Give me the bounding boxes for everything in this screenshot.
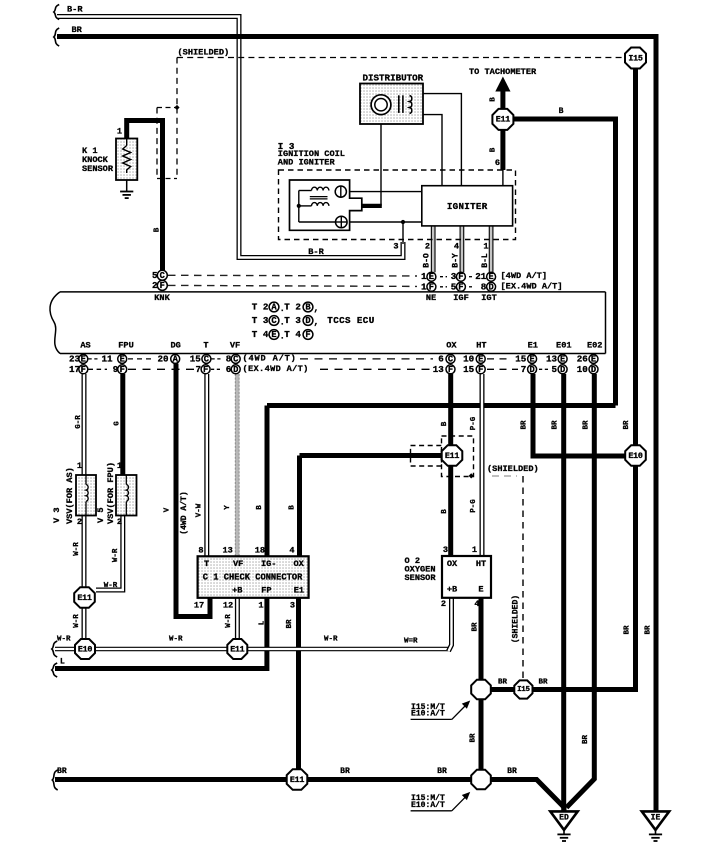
svg-text:E10: E10 bbox=[78, 644, 92, 654]
svg-text:T: T bbox=[204, 559, 209, 569]
svg-text:BR: BR bbox=[552, 420, 560, 429]
svg-text:F: F bbox=[203, 365, 208, 375]
svg-text:11: 11 bbox=[101, 353, 113, 364]
svg-text:4: 4 bbox=[289, 545, 294, 555]
svg-text:D: D bbox=[488, 282, 493, 292]
svg-text:C: C bbox=[271, 316, 276, 326]
svg-text:B-R: B-R bbox=[67, 5, 83, 15]
svg-text:W-R: W-R bbox=[73, 614, 81, 628]
svg-text:8: 8 bbox=[198, 545, 203, 555]
svg-text:1: 1 bbox=[421, 281, 427, 292]
svg-text:1: 1 bbox=[77, 461, 82, 471]
svg-text:C: C bbox=[160, 271, 165, 281]
svg-text:B: B bbox=[289, 505, 297, 510]
svg-text:18: 18 bbox=[255, 545, 265, 555]
svg-text:F: F bbox=[458, 272, 463, 282]
svg-text:IGT: IGT bbox=[481, 293, 497, 303]
svg-text:VSV(FOR FPU): VSV(FOR FPU) bbox=[106, 462, 116, 524]
svg-text:,: , bbox=[314, 317, 320, 328]
svg-text:+B: +B bbox=[232, 586, 242, 596]
svg-text:1: 1 bbox=[258, 601, 263, 611]
svg-text:T: T bbox=[203, 341, 208, 351]
svg-text:OX: OX bbox=[447, 559, 458, 569]
svg-text:F: F bbox=[160, 281, 165, 291]
svg-text:6: 6 bbox=[438, 353, 444, 364]
svg-text:(4WD A/T): (4WD A/T) bbox=[180, 491, 189, 534]
svg-text:E: E bbox=[81, 354, 86, 364]
svg-text:W-R: W-R bbox=[104, 582, 118, 590]
svg-text:12: 12 bbox=[223, 601, 233, 611]
svg-text:F: F bbox=[429, 282, 434, 292]
svg-text:E1: E1 bbox=[294, 586, 304, 596]
svg-text:T 3: T 3 bbox=[284, 315, 301, 326]
svg-text:4: 4 bbox=[454, 242, 459, 252]
svg-text:DISTRIBUTOR: DISTRIBUTOR bbox=[363, 73, 424, 84]
svg-text:+B: +B bbox=[447, 585, 457, 595]
svg-text:E11: E11 bbox=[445, 451, 459, 461]
svg-text:T 4: T 4 bbox=[252, 329, 269, 340]
svg-text:13: 13 bbox=[546, 353, 558, 364]
svg-text:SENSOR: SENSOR bbox=[82, 164, 114, 174]
svg-text:13: 13 bbox=[433, 364, 445, 375]
svg-text:[EX.4WD A/T]: [EX.4WD A/T] bbox=[501, 282, 563, 292]
svg-text:7: 7 bbox=[521, 364, 527, 375]
svg-text:13: 13 bbox=[223, 545, 233, 555]
svg-text:IG-: IG- bbox=[261, 559, 277, 569]
svg-text:E: E bbox=[429, 272, 434, 282]
svg-text:E: E bbox=[488, 272, 493, 282]
svg-text:IGNITER: IGNITER bbox=[447, 201, 488, 212]
svg-text:G: G bbox=[114, 421, 122, 426]
svg-text:10: 10 bbox=[463, 353, 474, 364]
svg-text:C: C bbox=[448, 354, 453, 364]
svg-text:E02: E02 bbox=[587, 341, 603, 351]
svg-text:3: 3 bbox=[290, 601, 295, 611]
svg-text:(SHIELDED): (SHIELDED) bbox=[178, 48, 230, 58]
svg-text:E1: E1 bbox=[528, 341, 538, 351]
svg-text:TO TACHOMETER: TO TACHOMETER bbox=[469, 67, 537, 77]
svg-text:F: F bbox=[120, 365, 125, 375]
svg-text:D: D bbox=[305, 316, 310, 326]
svg-text:BR: BR bbox=[521, 420, 529, 429]
svg-text:B: B bbox=[154, 227, 162, 232]
svg-text:E: E bbox=[591, 354, 596, 364]
svg-text:V 5: V 5 bbox=[96, 508, 106, 524]
svg-text:2: 2 bbox=[117, 517, 122, 527]
svg-text:A: A bbox=[271, 303, 277, 313]
svg-text:F: F bbox=[478, 365, 483, 375]
svg-text:E: E bbox=[560, 354, 565, 364]
svg-text:2: 2 bbox=[425, 242, 430, 252]
svg-text:D: D bbox=[233, 365, 238, 375]
svg-text:E: E bbox=[478, 354, 483, 364]
svg-text:P-G: P-G bbox=[470, 499, 478, 513]
svg-text:(EX.4WD A/T): (EX.4WD A/T) bbox=[243, 364, 309, 374]
svg-text:E10:A/T: E10:A/T bbox=[411, 710, 445, 719]
svg-text:KNK: KNK bbox=[154, 293, 170, 303]
svg-text:B: B bbox=[305, 303, 311, 313]
svg-text:E: E bbox=[120, 354, 125, 364]
svg-text:1: 1 bbox=[472, 545, 477, 555]
svg-text:T 2: T 2 bbox=[252, 302, 269, 313]
svg-text:P-G: P-G bbox=[470, 416, 478, 430]
svg-text:BR: BR bbox=[470, 733, 478, 742]
svg-text:VSV(FOR AS): VSV(FOR AS) bbox=[65, 467, 75, 524]
svg-text:BR: BR bbox=[57, 767, 67, 776]
svg-text:[4WD A/T]: [4WD A/T] bbox=[501, 271, 548, 281]
svg-text:B: B bbox=[441, 421, 449, 426]
svg-text:Y: Y bbox=[224, 505, 232, 510]
svg-text:15: 15 bbox=[515, 353, 527, 364]
svg-text:W-R: W-R bbox=[57, 636, 71, 644]
svg-text:ED: ED bbox=[559, 813, 569, 822]
svg-text:B: B bbox=[441, 509, 449, 514]
svg-text:T 2: T 2 bbox=[284, 302, 301, 313]
svg-text:VF: VF bbox=[233, 559, 243, 569]
svg-text:BR: BR bbox=[623, 420, 631, 429]
svg-text:V 3: V 3 bbox=[52, 508, 62, 524]
svg-text:BR: BR bbox=[624, 625, 632, 634]
svg-text:AS: AS bbox=[80, 341, 90, 351]
svg-text:HT: HT bbox=[476, 341, 486, 351]
svg-text:AND IGNITER: AND IGNITER bbox=[278, 158, 336, 168]
svg-text:15: 15 bbox=[190, 353, 202, 364]
svg-text:E10: E10 bbox=[628, 451, 642, 461]
svg-text:W-R: W-R bbox=[225, 614, 233, 628]
svg-text:HT: HT bbox=[476, 559, 486, 569]
svg-text:E10:A/T: E10:A/T bbox=[411, 801, 445, 810]
svg-text:L: L bbox=[60, 658, 65, 667]
svg-text:I15: I15 bbox=[517, 686, 530, 694]
svg-text:F: F bbox=[305, 330, 310, 340]
svg-text:E: E bbox=[478, 585, 483, 595]
svg-text:B-O: B-O bbox=[423, 253, 432, 268]
svg-text:D: D bbox=[591, 365, 596, 375]
svg-text:B: B bbox=[490, 147, 498, 152]
svg-text:E11: E11 bbox=[290, 775, 304, 785]
svg-text:E11: E11 bbox=[496, 115, 510, 125]
svg-text:F: F bbox=[81, 365, 86, 375]
svg-text:C 1 CHECK CONNECTOR: C 1 CHECK CONNECTOR bbox=[203, 573, 303, 583]
svg-text:6: 6 bbox=[495, 158, 500, 168]
svg-text:TCCS ECU: TCCS ECU bbox=[327, 315, 374, 326]
svg-text:V-W: V-W bbox=[196, 503, 204, 517]
svg-text:B: B bbox=[559, 107, 564, 116]
svg-text:FP: FP bbox=[261, 586, 271, 596]
svg-text:B: B bbox=[256, 505, 264, 510]
svg-text:26: 26 bbox=[577, 353, 588, 364]
svg-text:15: 15 bbox=[463, 364, 475, 375]
svg-text:10: 10 bbox=[577, 364, 588, 375]
svg-text:3: 3 bbox=[393, 242, 398, 252]
svg-text:BR: BR bbox=[582, 735, 590, 744]
svg-text:BR: BR bbox=[645, 625, 653, 634]
svg-text:BR: BR bbox=[472, 622, 480, 631]
svg-text:C: C bbox=[204, 354, 209, 364]
svg-text:W-R: W-R bbox=[73, 542, 81, 556]
svg-text:E01: E01 bbox=[556, 341, 572, 351]
svg-text:1: 1 bbox=[483, 242, 488, 252]
svg-text:F: F bbox=[448, 365, 453, 375]
svg-text:DG: DG bbox=[171, 341, 181, 351]
svg-text:OX: OX bbox=[446, 341, 457, 351]
svg-text:OX: OX bbox=[294, 559, 305, 569]
svg-text:(4WD A/T): (4WD A/T) bbox=[243, 354, 297, 364]
svg-text:D: D bbox=[560, 365, 565, 375]
svg-text:W-R: W-R bbox=[169, 636, 183, 644]
svg-text:BR: BR bbox=[437, 767, 447, 776]
svg-text:BR: BR bbox=[507, 767, 517, 776]
svg-text:,: , bbox=[314, 303, 320, 314]
svg-text:BR: BR bbox=[286, 619, 294, 628]
svg-text:1: 1 bbox=[117, 461, 122, 471]
svg-text:IGF: IGF bbox=[453, 293, 469, 303]
svg-text:IE: IE bbox=[651, 813, 661, 822]
svg-text:VF: VF bbox=[230, 341, 240, 351]
svg-text:I15: I15 bbox=[628, 53, 642, 63]
svg-text:E: E bbox=[271, 330, 276, 340]
svg-text:4: 4 bbox=[474, 599, 479, 609]
svg-text:B-R: B-R bbox=[308, 247, 324, 257]
svg-text:T 3: T 3 bbox=[252, 315, 269, 326]
svg-text:7: 7 bbox=[195, 364, 201, 375]
svg-text:20: 20 bbox=[157, 353, 168, 364]
svg-text:5: 5 bbox=[551, 364, 557, 375]
svg-text:B: B bbox=[490, 97, 498, 102]
svg-text:F: F bbox=[458, 282, 463, 292]
svg-text:(SHIELDED): (SHIELDED) bbox=[512, 595, 521, 643]
svg-text:G-R: G-R bbox=[75, 415, 83, 429]
svg-text:B-L: B-L bbox=[481, 253, 490, 268]
svg-text:2: 2 bbox=[77, 517, 82, 527]
svg-text:L: L bbox=[259, 620, 267, 625]
svg-text:NE: NE bbox=[426, 293, 436, 303]
svg-text:E11: E11 bbox=[77, 593, 91, 603]
svg-text:E: E bbox=[529, 354, 534, 364]
svg-text:3: 3 bbox=[443, 545, 448, 555]
svg-text:W-R: W-R bbox=[112, 548, 120, 562]
svg-text:BR: BR bbox=[498, 678, 507, 686]
svg-text:E11: E11 bbox=[230, 644, 244, 654]
svg-text:17: 17 bbox=[194, 601, 204, 611]
svg-text:BR: BR bbox=[340, 767, 350, 776]
svg-text:BR: BR bbox=[583, 420, 591, 429]
svg-text:FPU: FPU bbox=[118, 341, 134, 351]
svg-text:SENSOR: SENSOR bbox=[405, 573, 437, 583]
svg-text:V: V bbox=[164, 507, 172, 512]
svg-text:W=R: W=R bbox=[404, 638, 418, 646]
svg-text:2: 2 bbox=[441, 599, 446, 609]
svg-text:C: C bbox=[233, 354, 238, 364]
svg-text:BR: BR bbox=[539, 678, 548, 686]
svg-text:A: A bbox=[173, 354, 179, 364]
svg-text:(SHIELDED): (SHIELDED) bbox=[487, 464, 539, 474]
svg-text:T 4: T 4 bbox=[284, 329, 301, 340]
svg-text:B-Y: B-Y bbox=[452, 253, 461, 268]
svg-text:W-R: W-R bbox=[324, 636, 338, 644]
svg-text:1: 1 bbox=[117, 127, 122, 137]
svg-text:D: D bbox=[529, 365, 534, 375]
svg-text:BR: BR bbox=[72, 25, 83, 35]
